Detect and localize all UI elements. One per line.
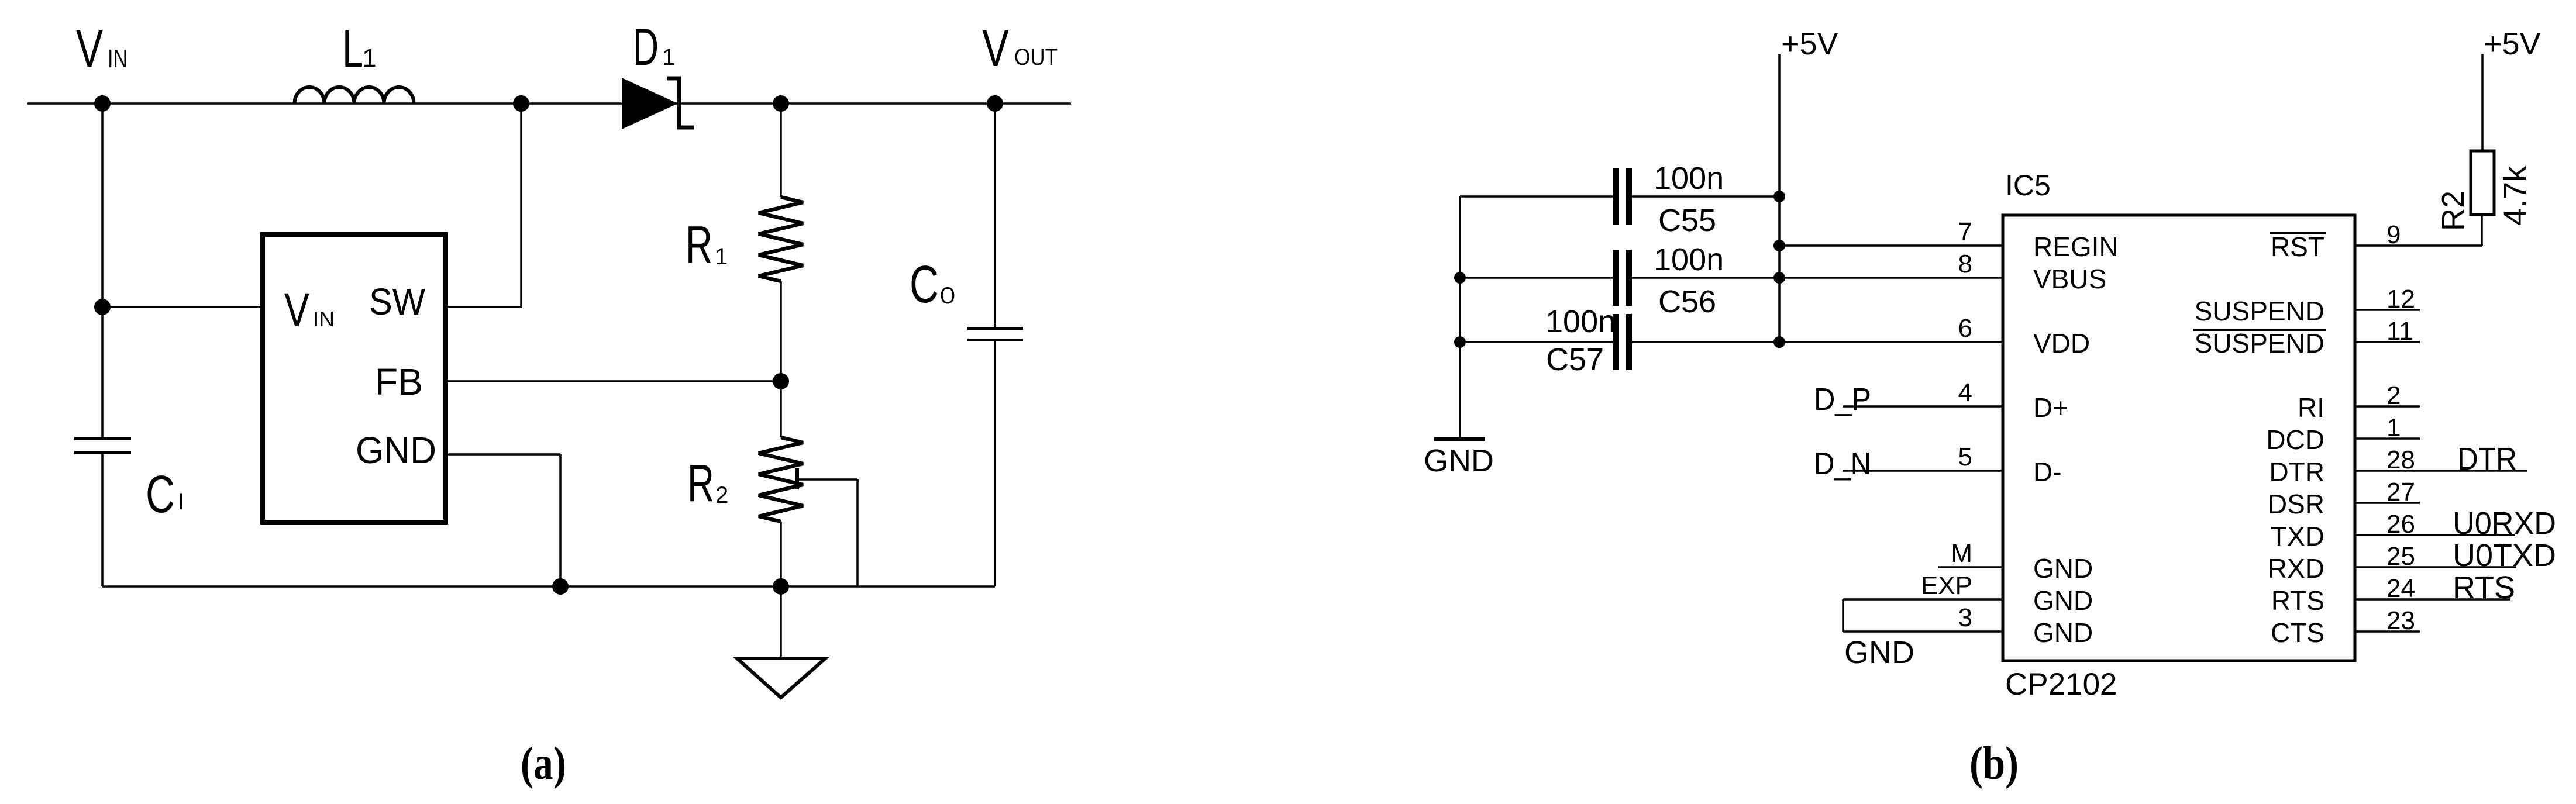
- wire SW pin to L1 node: [448, 103, 521, 308]
- resistor R2 potentiometer: [759, 437, 803, 522]
- svg-text:GND: GND: [356, 429, 436, 471]
- wire DTR net: [2355, 470, 2527, 472]
- pin number M row 970: [1951, 539, 1972, 568]
- svg-text:+5V: +5V: [1781, 26, 1838, 61]
- label R1: [686, 216, 728, 274]
- wire R2 bottom lead: [780, 522, 782, 586]
- svg-text:IC5: IC5: [2005, 169, 2051, 202]
- wire wiper return: [799, 479, 857, 586]
- wire top rail from VIN to VOUT: [27, 102, 1071, 105]
- svg-text:C55: C55: [1658, 203, 1716, 238]
- svg-text:R2: R2: [2436, 191, 2471, 231]
- pin number 28 row 805: [2386, 446, 2415, 474]
- resistor R1: [759, 197, 803, 281]
- capacitor C57: [1460, 314, 2003, 370]
- svg-text:2: 2: [715, 482, 728, 508]
- capacitor CI: [74, 439, 131, 453]
- label CI: [146, 465, 184, 524]
- node REGIN tap: [1773, 240, 1785, 251]
- wire pin stub row 695: [2355, 405, 2420, 408]
- svg-text:3: 3: [1958, 603, 1972, 632]
- node bus C57: [1454, 336, 1466, 348]
- label R2 value 4.7k: [2498, 165, 2533, 226]
- wire U0TXD net: [2355, 566, 2516, 568]
- inductor L1: [295, 87, 414, 103]
- pin FB label: [375, 361, 423, 403]
- wire R2 to +5V: [2481, 54, 2484, 151]
- node GND rail junction: [552, 578, 569, 595]
- svg-text:VBUS: VBUS: [2033, 264, 2106, 294]
- op-amp IC5 CP2102 box: [2003, 215, 2355, 661]
- svg-text:GND: GND: [2033, 617, 2093, 648]
- svg-text:4.7k: 4.7k: [2498, 165, 2533, 226]
- svg-text:GND: GND: [1424, 443, 1494, 478]
- pin name RXD row 970: [2268, 553, 2324, 584]
- pin number 5 row 805: [1958, 443, 1972, 471]
- pin number 25 row 970: [2386, 542, 2415, 571]
- svg-text:SW: SW: [369, 281, 426, 323]
- svg-text:(a): (a): [521, 738, 566, 789]
- svg-text:7: 7: [1958, 218, 1972, 246]
- pin name TXD row 915: [2271, 521, 2324, 551]
- label VIN node: [76, 20, 128, 78]
- svg-text:(b): (b): [1969, 738, 2019, 789]
- svg-text:IN: IN: [108, 44, 128, 73]
- resistor R2 pullup: [2471, 151, 2494, 215]
- label C57 name: [1546, 342, 1604, 377]
- pin number 24 row 1025: [2386, 574, 2415, 603]
- ground GND left: [1424, 439, 1494, 478]
- wire left bus lower (CI bottom to ground rail): [101, 454, 104, 586]
- node D_P label wire: [1814, 382, 2003, 417]
- node VOUT junction: [987, 95, 1003, 112]
- svg-text:IN: IN: [313, 307, 335, 331]
- svg-text:RTS: RTS: [2453, 570, 2515, 605]
- svg-text:6: 6: [1958, 314, 1972, 343]
- power +5V right: [2484, 26, 2541, 61]
- svg-text:D-: D-: [2033, 457, 2062, 487]
- pin name REGIN row 420: [2033, 232, 2119, 262]
- pin number 27 row 860: [2386, 478, 2415, 506]
- svg-text:1: 1: [362, 44, 376, 73]
- svg-text:GND: GND: [1844, 635, 1914, 670]
- pin number 6 row 585: [1958, 314, 1972, 343]
- pin name D- row 805: [2033, 457, 2062, 487]
- svg-text:OUT: OUT: [1014, 44, 1058, 70]
- label CO: [910, 256, 955, 314]
- wire U0RXD net: [2355, 534, 2515, 536]
- svg-text:O: O: [940, 283, 955, 309]
- svg-text:R: R: [687, 454, 714, 513]
- svg-text:5: 5: [1958, 443, 1972, 471]
- node D_N label wire: [1814, 446, 2003, 481]
- svg-text:D_P: D_P: [1814, 382, 1871, 417]
- wire GND bracket EXP and pin3: [1843, 599, 2003, 632]
- node C55 right: [1773, 191, 1785, 202]
- svg-text:CTS: CTS: [2271, 617, 2324, 648]
- pin SW label: [369, 281, 426, 323]
- wire RST to R2: [2355, 215, 2482, 246]
- wire ground rail: [102, 585, 995, 588]
- label DTR net: [2457, 441, 2517, 477]
- svg-text:4: 4: [1958, 378, 1972, 407]
- label U0RXD net: [2453, 506, 2556, 541]
- wire pin stub row 530: [2355, 309, 2420, 311]
- power +5V left: [1779, 26, 1838, 342]
- label C55 value: [1654, 161, 1724, 196]
- node VBUS tap: [1773, 272, 1785, 284]
- wire left bus upper (VIN down to CI top plate): [101, 103, 104, 437]
- svg-text:V: V: [284, 284, 309, 337]
- pin name CTS row 1080: [2271, 617, 2324, 648]
- label CP2102: [2005, 667, 2117, 702]
- diode D1: [622, 78, 694, 129]
- pin GND label: [356, 429, 436, 471]
- svg-text:RI: RI: [2298, 392, 2324, 423]
- svg-text:EXP: EXP: [1921, 571, 1972, 600]
- pin number 7 row 420: [1958, 218, 1972, 246]
- wire pin stub row 1080: [2355, 630, 2420, 633]
- pin number 9 row 420: [2386, 220, 2401, 249]
- pin number 3 row 1080: [1958, 603, 1972, 632]
- label VOUT node: [982, 19, 1058, 78]
- pin name VDD row 585: [2033, 328, 2090, 358]
- caption (b): [1969, 738, 2019, 789]
- node ground stem junction: [773, 578, 789, 595]
- svg-text:C: C: [146, 465, 175, 524]
- pin number EXP row 1025: [1921, 571, 1972, 600]
- svg-text:TXD: TXD: [2271, 521, 2324, 551]
- pin name GND row 1025: [2033, 585, 2093, 616]
- pin name DTR row 805: [2269, 457, 2324, 487]
- caption (a): [521, 738, 566, 789]
- svg-text:1: 1: [715, 244, 728, 270]
- svg-text:RXD: RXD: [2268, 553, 2324, 584]
- node SW junction after L1: [513, 95, 529, 112]
- pin name DCD row 750: [2266, 425, 2324, 455]
- wire R1 top lead: [780, 103, 782, 197]
- svg-text:R: R: [686, 216, 712, 274]
- wire pin stub row 860: [2355, 502, 2420, 504]
- pin number 4 row 695: [1958, 378, 1972, 407]
- svg-text:GND: GND: [2033, 553, 2093, 584]
- wire R2 top lead: [780, 381, 782, 437]
- svg-text:L: L: [342, 20, 363, 78]
- pin name GND row 1080: [2033, 617, 2093, 648]
- pin name RI row 695: [2298, 392, 2324, 423]
- pin name RTS row 1025: [2271, 585, 2324, 616]
- wire pin stub row 585: [2355, 341, 2420, 343]
- capacitor C56: [1460, 250, 2003, 306]
- wire RTS net: [2355, 598, 2510, 601]
- node FB junction: [773, 373, 789, 389]
- svg-text:VDD: VDD: [2033, 328, 2090, 358]
- label C57 value: [1545, 304, 1616, 339]
- op-amp U1 regulator block: [263, 234, 446, 522]
- label IC5: [2005, 169, 2051, 202]
- svg-text:SUSPEND: SUSPEND: [2195, 328, 2324, 358]
- label RTS net: [2453, 570, 2515, 605]
- svg-text:+5V: +5V: [2484, 26, 2541, 61]
- node bus C56: [1454, 272, 1466, 284]
- node VDD tap: [1773, 336, 1785, 348]
- pin VIN label: [284, 284, 335, 337]
- svg-text:V: V: [76, 20, 103, 78]
- svg-text:DSR: DSR: [2268, 489, 2324, 519]
- svg-text:I: I: [178, 489, 184, 515]
- pin name SUSPEND row 530: [2195, 296, 2324, 326]
- wire R1 bottom to FB node: [780, 281, 782, 381]
- svg-text:D_N: D_N: [1814, 446, 1871, 481]
- wire left bus: [1459, 196, 1461, 439]
- capacitor CO: [967, 103, 1023, 586]
- label R2 name: [2436, 191, 2471, 231]
- svg-text:RST: RST: [2271, 232, 2324, 262]
- label R2: [687, 454, 728, 513]
- label C56 value: [1654, 242, 1724, 277]
- svg-text:SUSPEND: SUSPEND: [2195, 296, 2324, 326]
- label C56 name: [1658, 284, 1716, 319]
- label C55 name: [1658, 203, 1716, 238]
- wire VIN pin to regulator: [102, 306, 260, 308]
- svg-text:DTR: DTR: [2457, 441, 2517, 477]
- svg-text:U0TXD: U0TXD: [2453, 538, 2556, 573]
- svg-text:RTS: RTS: [2271, 585, 2324, 616]
- pin name RST row 420: [2270, 232, 2326, 262]
- svg-text:C57: C57: [1546, 342, 1604, 377]
- wire GND pin M: [1938, 566, 2003, 568]
- node VIN-pin tap: [94, 299, 111, 315]
- label GND bracket: [1844, 635, 1914, 670]
- label U0TXD net: [2453, 538, 2556, 573]
- svg-text:CP2102: CP2102: [2005, 667, 2117, 702]
- svg-text:DTR: DTR: [2269, 457, 2324, 487]
- svg-text:D+: D+: [2033, 392, 2068, 423]
- svg-text:1: 1: [662, 44, 675, 70]
- pin number 26 row 915: [2386, 510, 2415, 539]
- svg-text:D: D: [633, 18, 659, 77]
- capacitor C55: [1460, 168, 1779, 225]
- pin name VBUS row 475: [2033, 264, 2106, 294]
- svg-text:REGIN: REGIN: [2033, 232, 2119, 262]
- pin number 23 row 1080: [2386, 606, 2415, 635]
- wire GND pin to ground rail: [448, 454, 560, 586]
- pin number 8 row 475: [1958, 250, 1972, 278]
- pin number 12 row 530: [2386, 285, 2415, 313]
- pin name DSR row 860: [2268, 489, 2324, 519]
- node VIN junction: [94, 95, 111, 112]
- svg-text:C56: C56: [1658, 284, 1716, 319]
- svg-text:V: V: [982, 19, 1009, 78]
- label L1: [342, 20, 376, 78]
- pin number 11 row 585: [2386, 317, 2413, 346]
- svg-text:DCD: DCD: [2266, 425, 2324, 455]
- pin number 1 row 750: [2386, 413, 2401, 442]
- label D1: [633, 18, 675, 77]
- node R1 top junction: [773, 95, 789, 112]
- wire pin stub row 750: [2355, 437, 2420, 440]
- pin number 2 row 695: [2386, 381, 2401, 410]
- wire FB pin to divider: [448, 380, 781, 382]
- svg-text:U0RXD: U0RXD: [2453, 506, 2556, 541]
- svg-text:GND: GND: [2033, 585, 2093, 616]
- svg-text:8: 8: [1958, 250, 1972, 278]
- svg-text:C: C: [910, 256, 939, 314]
- svg-text:FB: FB: [375, 361, 423, 403]
- svg-text:100n: 100n: [1545, 304, 1616, 339]
- ground symbol: [737, 586, 825, 698]
- pin name D+ row 695: [2033, 392, 2068, 423]
- pin name SUSPEND row 585: [2193, 328, 2326, 358]
- svg-text:M: M: [1951, 539, 1972, 568]
- pin name GND row 970: [2033, 553, 2093, 584]
- wire REGIN: [1779, 244, 2003, 247]
- svg-text:100n: 100n: [1654, 242, 1724, 277]
- svg-text:100n: 100n: [1654, 161, 1724, 196]
